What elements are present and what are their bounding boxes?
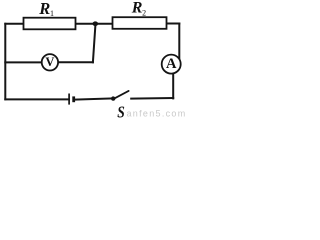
svg-text:R: R	[38, 0, 50, 18]
svg-text:V: V	[45, 55, 54, 69]
wire junction drop	[93, 24, 96, 63]
wire switch to battery	[75, 98, 113, 99]
svg-text:1: 1	[50, 9, 54, 18]
wire bottom-right to switch	[131, 97, 173, 100]
svg-text:R: R	[131, 0, 143, 17]
ammeter A	[162, 55, 181, 74]
wire R1 to R2	[76, 23, 113, 25]
svg-text:anfen5.com: anfen5.com	[127, 108, 187, 118]
wire voltmeter row right	[58, 61, 93, 63]
battery cell: short thick plate	[72, 96, 75, 102]
wire top-left to R1	[5, 23, 23, 25]
switch S blade	[113, 91, 129, 99]
wire ammeter to bottom-right corner	[172, 73, 174, 98]
wire left vertical	[4, 24, 6, 100]
node junction dot	[93, 21, 99, 26]
voltmeter V	[42, 54, 58, 70]
battery cell: long plate	[68, 94, 70, 105]
wire battery to bottom-left corner	[5, 98, 69, 100]
switch S pivot	[111, 96, 115, 100]
svg-text:S: S	[117, 104, 125, 120]
svg-text:2: 2	[142, 9, 146, 18]
resistor R2	[113, 17, 167, 29]
resistor R1	[24, 18, 76, 30]
wire voltmeter row left	[5, 61, 41, 63]
wire R2 to top-right corner	[167, 23, 180, 25]
svg-text:A: A	[166, 56, 177, 72]
wire right vertical into ammeter	[178, 24, 180, 60]
